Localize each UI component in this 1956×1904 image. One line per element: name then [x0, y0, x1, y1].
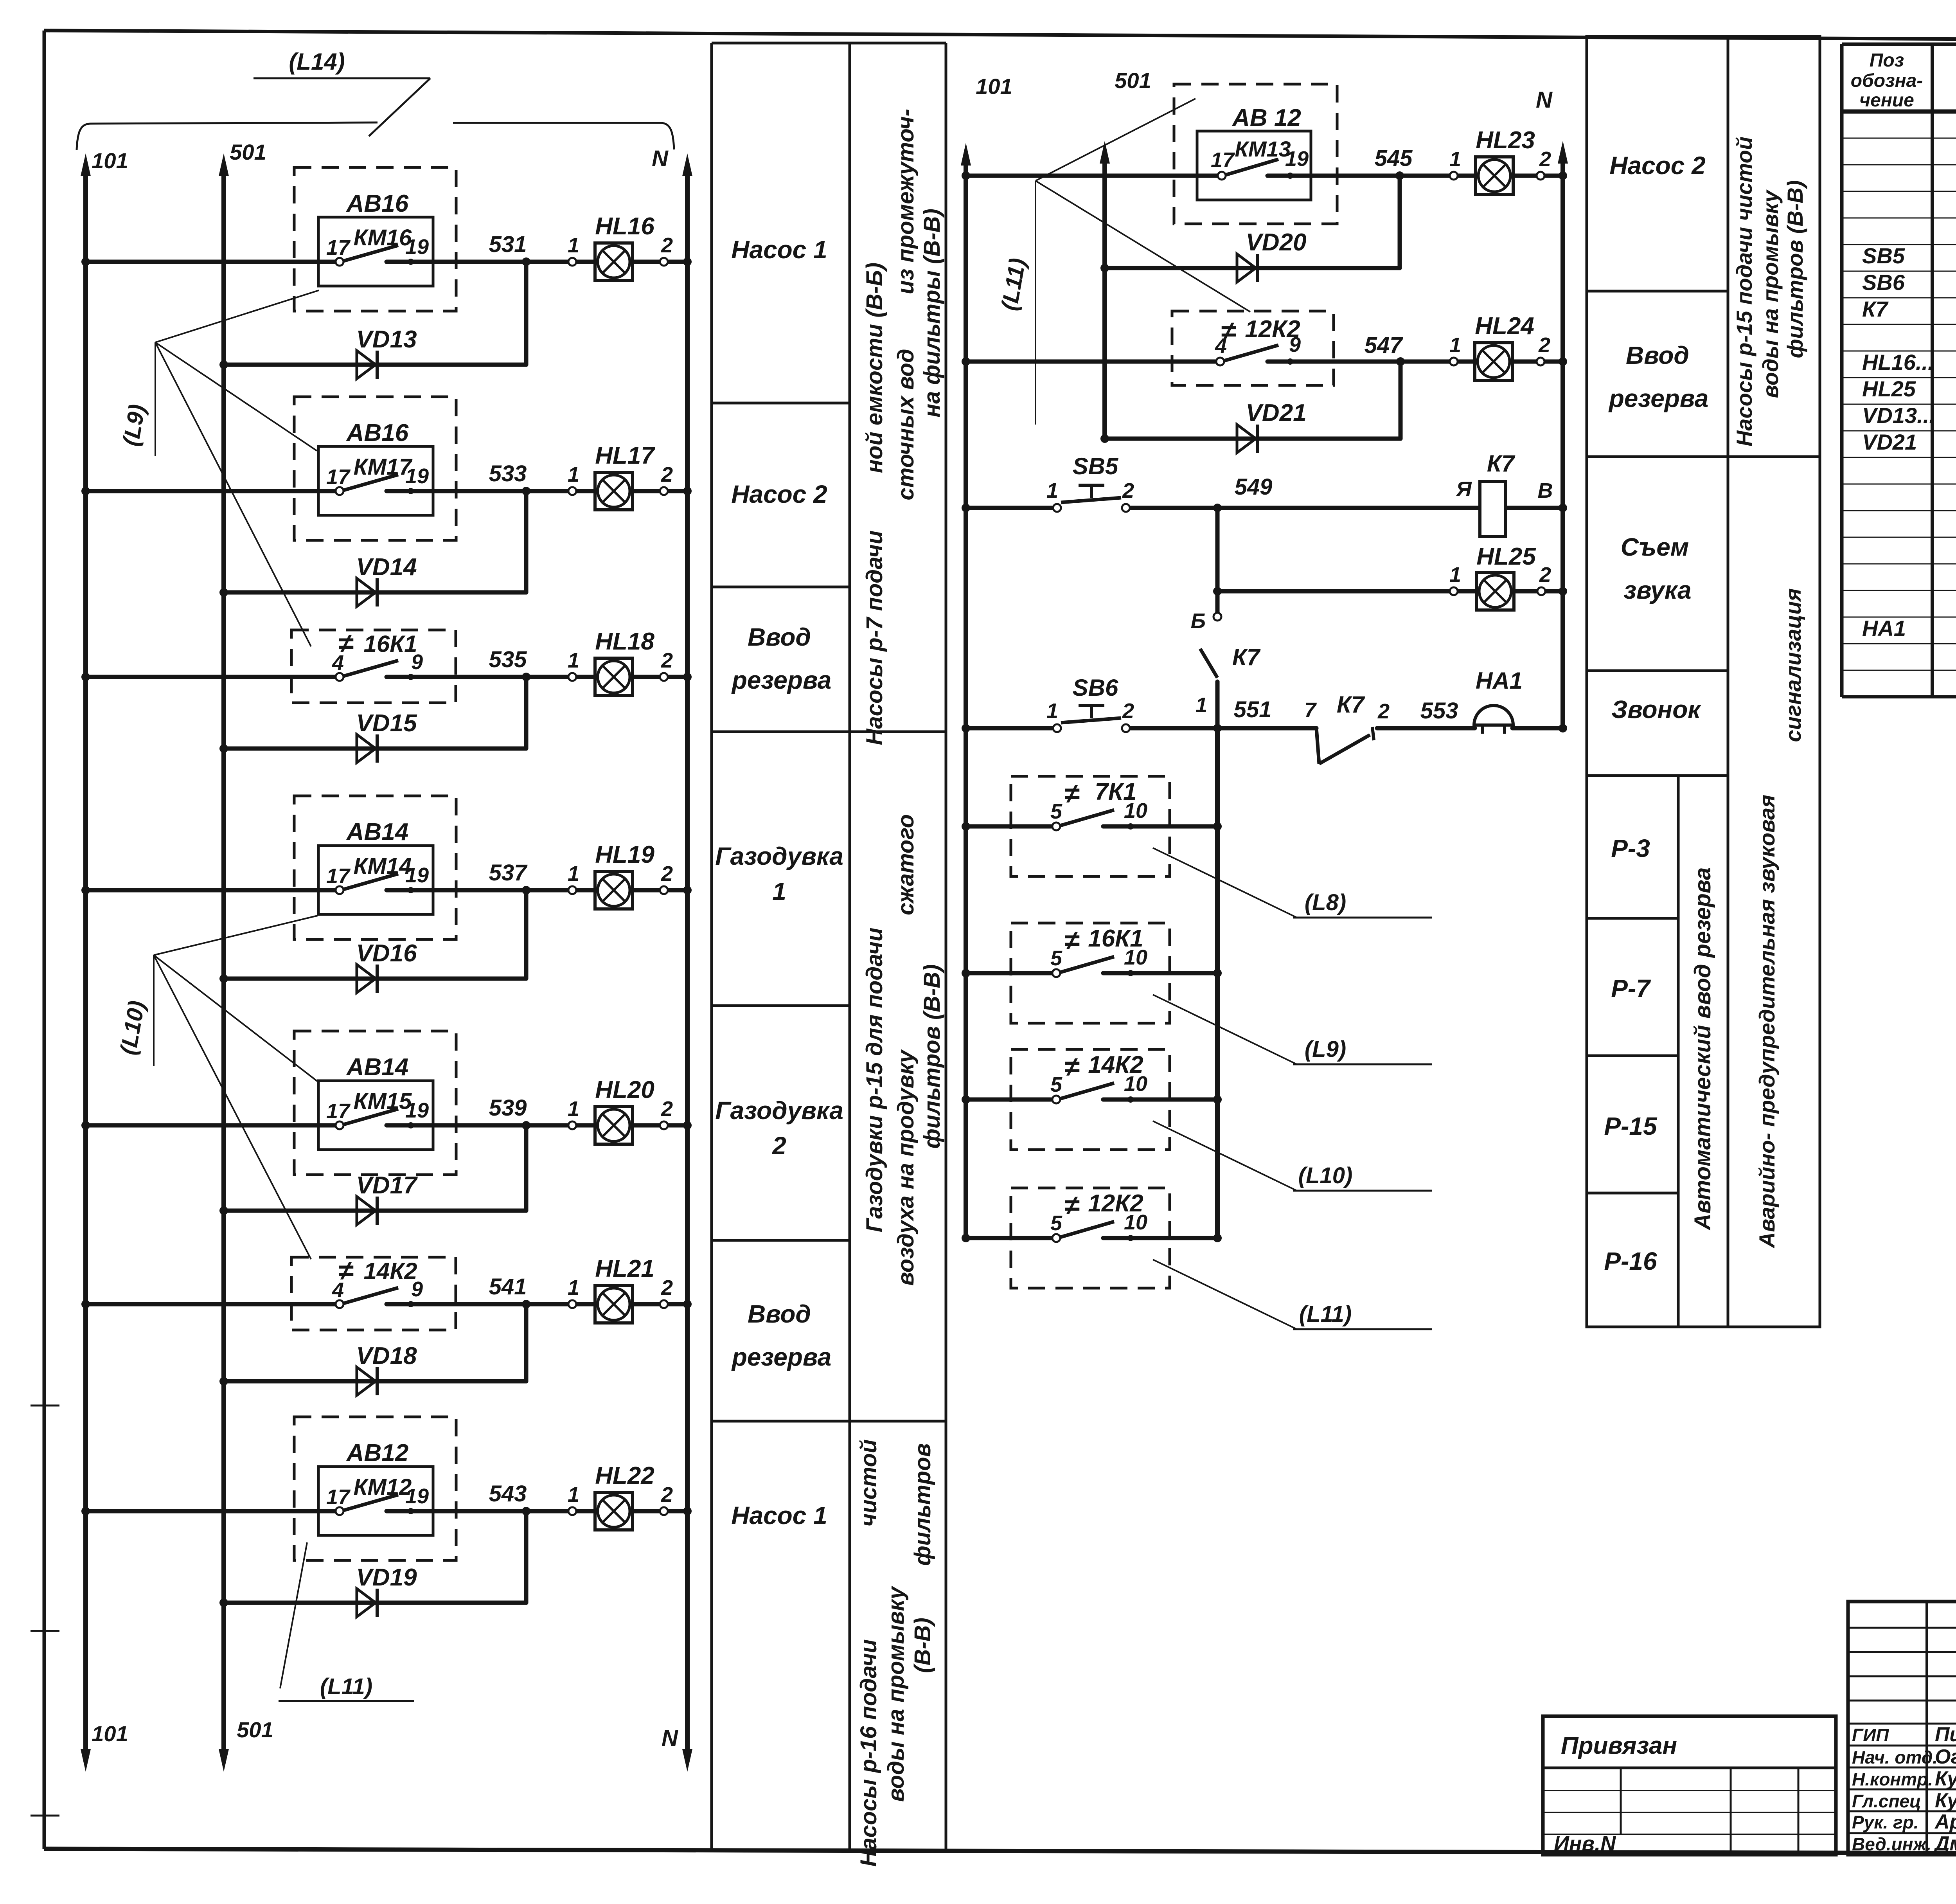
wire rung 537 from bus 101 to contact — [86, 888, 340, 893]
bus N (left ladder vertical rail) — [682, 153, 692, 1772]
junction on bus N rung 545 — [1559, 171, 1567, 180]
wire rung 12К2 to vertical bus — [1103, 1236, 1217, 1240]
junction on bus N at rung 537 — [683, 886, 692, 894]
junction node 547 — [1396, 357, 1405, 366]
svg-text:16К1: 16К1 — [364, 631, 417, 657]
svg-text:Р-15: Р-15 — [1604, 1112, 1658, 1140]
wire rung 535 from contact to bus N — [387, 675, 687, 679]
dashed enclosure contact 16К1 — [1011, 923, 1170, 1023]
terminal Б of contact K7 — [1214, 613, 1221, 621]
terminal 2 of lamp HL23 — [1537, 172, 1544, 180]
junction on bus 101 rung 545 — [962, 171, 970, 180]
svg-text:Я: Я — [1455, 477, 1472, 501]
rotated caption Аварийно-предупредительная звуковая сигнализация — [1755, 588, 1805, 1249]
dashed enclosure contact 14К2 — [291, 1257, 456, 1330]
wire rung 14К2 from bus 101 — [966, 1098, 1056, 1102]
junction on bus 501 at VD13 — [219, 360, 228, 369]
svg-text:541: 541 — [489, 1274, 527, 1299]
wire diode row VD21 from bus 501 — [1105, 437, 1400, 441]
parts row HL16 Табло световое ТСМ-III-УЗ-01 — [1862, 349, 1956, 375]
svg-text:сточных вод: сточных вод — [893, 349, 919, 500]
svg-text:VD19: VD19 — [356, 1564, 417, 1591]
svg-text:SB5: SB5 — [1073, 453, 1119, 479]
rotated caption: Насосы р-16 подачи чистой воды на промывку фильтров (В-В) — [856, 1439, 935, 1866]
parts row НА1 Звонок электрический МЗ-1 — [1862, 615, 1956, 641]
junction on bus 501 at VD17 — [219, 1206, 228, 1215]
svg-text:резерва: резерва — [731, 666, 832, 694]
svg-text:2: 2 — [1122, 699, 1134, 723]
svg-text:Р-16: Р-16 — [1604, 1247, 1657, 1275]
svg-text:Арнаутова: Арнаутова — [1934, 1810, 1956, 1833]
svg-text:2: 2 — [772, 1132, 786, 1160]
parts row VD13 Диод Д226 — [1862, 403, 1956, 428]
svg-text:19: 19 — [405, 464, 429, 488]
cable pointer (L11) upper — [996, 99, 1250, 425]
svg-text:2: 2 — [1539, 563, 1551, 587]
junction bus101 rung 12К2 — [962, 1234, 970, 1242]
svg-text:2: 2 — [661, 463, 673, 486]
terminal 1 of lamp HL24 — [1450, 358, 1458, 365]
svg-text:≠: ≠ — [1064, 925, 1080, 956]
svg-text:Поз: Поз — [1870, 50, 1904, 71]
svg-text:Пивторак: Пивторак — [1935, 1723, 1956, 1746]
junction on bus 501 at VD14 — [219, 588, 228, 597]
svg-text:501: 501 — [237, 1717, 273, 1742]
svg-text:Насос 1: Насос 1 — [731, 1501, 827, 1530]
svg-text:2: 2 — [661, 1276, 673, 1299]
bell HA1 — [1474, 705, 1513, 734]
junction on vertical bus at HL25 rung — [1213, 587, 1222, 596]
svg-text:5: 5 — [1050, 1211, 1062, 1235]
svg-text:К7: К7 — [1487, 450, 1516, 477]
svg-text:VD21: VD21 — [1246, 400, 1306, 427]
svg-text:VD20: VD20 — [1246, 229, 1306, 256]
dashed enclosure contact 12K2 (upper) — [1172, 311, 1334, 385]
wire rung 551 from bus 101 to button SB6 — [966, 726, 1057, 731]
junction vertical bus rung 551 — [1213, 724, 1222, 732]
svg-text:10: 10 — [1124, 1211, 1147, 1234]
junction node 549 (to bus down) — [1213, 504, 1222, 512]
wire rung 7К1 from bus 101 — [966, 824, 1056, 829]
diode VD18 — [357, 1367, 377, 1395]
junction on bus N at HL25 rung — [1559, 587, 1567, 596]
lamp HL22 — [595, 1492, 633, 1530]
svg-text:воздуха на продувку: воздуха на продувку — [893, 1049, 919, 1285]
svg-text:1: 1 — [568, 649, 579, 672]
junction node 535 (branch to diode) — [522, 673, 530, 681]
svg-text:НА1: НА1 — [1476, 668, 1523, 694]
svg-text:HL22: HL22 — [595, 1462, 654, 1489]
svg-text:(L11): (L11) — [996, 256, 1030, 313]
terminal 1 of lamp HL18 — [568, 673, 576, 681]
diode VD17 — [357, 1197, 377, 1225]
svg-text:Автоматический ввод резерв: Автоматический ввод резерва — [1690, 867, 1715, 1231]
svg-text:(В-В): (В-В) — [910, 1618, 935, 1673]
svg-text:14К2: 14К2 — [364, 1258, 417, 1284]
junction on bus N at rung 541 — [683, 1300, 692, 1308]
junction on bus 101 rung 549 — [962, 504, 970, 512]
svg-text:Насос 2: Насос 2 — [731, 480, 827, 508]
wire rung 549 from coil K7 to bus N — [1506, 506, 1563, 510]
wire branch from node 537 down to diode VD16 — [524, 890, 529, 979]
wire diode row VD15 from bus 501 — [224, 747, 526, 751]
contact K7 (nc, on bell rung) — [1316, 727, 1374, 764]
svg-text:4: 4 — [332, 1278, 344, 1302]
wire rung 539 from bus 101 to contact — [86, 1123, 340, 1128]
svg-text:звука: звука — [1623, 576, 1691, 604]
contact K7 (no, vertical) blade — [1200, 649, 1217, 678]
wire diode row VD19 from bus 501 — [224, 1601, 526, 1605]
legend row Газодувка 2 — [715, 1096, 843, 1160]
svg-text:АВ14: АВ14 — [346, 1054, 409, 1081]
svg-text:1: 1 — [1046, 479, 1058, 502]
contact 7К1 blade and terminals — [1052, 810, 1134, 830]
dashed enclosure АВ12 (middle) — [1174, 84, 1337, 224]
lamp HL24 — [1475, 343, 1512, 380]
svg-text:HL21: HL21 — [595, 1255, 654, 1282]
inner box of contactor КМ17 — [318, 446, 433, 515]
svg-text:Насос 1: Насос 1 — [731, 236, 827, 264]
svg-text:17: 17 — [1211, 148, 1235, 172]
svg-text:19: 19 — [405, 235, 429, 259]
legend row Ввод резерва (top) — [731, 623, 832, 694]
wire rung 541 from bus 101 to contact — [86, 1302, 340, 1307]
svg-text:≠: ≠ — [1064, 1190, 1080, 1220]
junction on bus 501 at VD18 — [219, 1377, 228, 1386]
junction on bus N at rung 531 — [683, 257, 692, 266]
junction on bus 101 at rung 535 — [81, 673, 90, 681]
svg-text:HL16: HL16 — [595, 213, 654, 240]
diode VD15 — [357, 734, 377, 763]
wire rung 549 from bus 101 to button SB5 — [966, 506, 1057, 510]
svg-text:545: 545 — [1375, 146, 1413, 171]
svg-text:Аварийно- предупредительная з: Аварийно- предупредительная звуковая — [1755, 795, 1779, 1249]
junction bus101 rung 14К2 — [962, 1095, 970, 1104]
junction node 543 (branch to diode) — [522, 1507, 530, 1515]
svg-text:19: 19 — [1285, 147, 1309, 171]
legend row Ввод резерва (middle) — [1608, 341, 1709, 412]
svg-text:535: 535 — [489, 647, 527, 672]
svg-text:1: 1 — [568, 1097, 579, 1121]
wire rung 535 from bus 101 to contact — [86, 675, 340, 679]
svg-text:101: 101 — [976, 74, 1012, 99]
svg-text:фильтров (В-В): фильтров (В-В) — [1783, 180, 1807, 358]
svg-text:2: 2 — [661, 862, 673, 885]
svg-text:1: 1 — [1196, 693, 1207, 717]
cable pointer (L10) — [1153, 1121, 1432, 1191]
svg-text:КМ14: КМ14 — [354, 853, 412, 879]
svg-text:2: 2 — [1377, 700, 1390, 723]
contact 12K2 blade and terminals — [1216, 345, 1293, 365]
junction on bus N at rung 535 — [683, 673, 692, 681]
svg-text:HL25: HL25 — [1476, 543, 1536, 570]
svg-text:обозна-: обозна- — [1851, 70, 1923, 91]
wire rung HL25 from bus to lamp and bus N — [1217, 589, 1563, 594]
svg-text:В: В — [1538, 479, 1553, 502]
wire rung 531 from bus 101 to contact — [86, 260, 340, 264]
svg-text:17: 17 — [326, 864, 351, 888]
svg-text:Нач. отд.: Нач. отд. — [1852, 1747, 1938, 1767]
svg-text:Р-3: Р-3 — [1611, 834, 1650, 862]
bus 101 (left ladder vertical rail) — [81, 153, 91, 1772]
relay coil K7 — [1480, 482, 1506, 536]
junction on bus 501 at VD20 — [1100, 264, 1109, 272]
junction on bus N at rung 543 — [683, 1507, 692, 1515]
junction on bus 101 at rung 543 — [81, 1507, 90, 1515]
svg-text:резерва: резерва — [731, 1343, 832, 1371]
svg-text:≠: ≠ — [1064, 778, 1080, 809]
wire rung 7К1 to vertical bus — [1103, 824, 1217, 829]
svg-text:Газодувка: Газодувка — [715, 1096, 843, 1125]
wire branch from node 541 down to diode VD18 — [524, 1304, 529, 1381]
svg-text:SB6: SB6 — [1862, 270, 1905, 295]
contact 16К1 blade and terminals — [336, 660, 414, 681]
junction on bus 101 at rung 541 — [81, 1300, 90, 1308]
parts row HL25 ~220В — [1862, 376, 1956, 401]
svg-text:1: 1 — [568, 1276, 579, 1299]
wire rung 531 from contact to bus N — [387, 260, 687, 264]
svg-text:чение: чение — [1859, 90, 1914, 111]
wire branch from node 543 down to diode VD19 — [524, 1511, 529, 1603]
svg-text:547: 547 — [1365, 333, 1404, 358]
svg-text:Дмитриева: Дмитриева — [1933, 1832, 1956, 1855]
wire bus from node 549 down to contact K7 — [1215, 508, 1220, 613]
contact КМ16 blade and terminals — [336, 245, 414, 266]
junction on bus 501 at VD21 — [1100, 434, 1109, 443]
dashed enclosure АВ14 — [294, 1031, 456, 1175]
svg-text:Инв.N: Инв.N — [1554, 1832, 1616, 1855]
wire rung 547 from bus 101 to contact 12K2 — [966, 360, 1220, 364]
svg-text:VD18: VD18 — [356, 1343, 417, 1370]
svg-text:(L14): (L14) — [289, 49, 345, 75]
terminal 2 of lamp HL19 — [660, 886, 668, 894]
svg-text:(L9): (L9) — [1305, 1037, 1346, 1062]
push button SB6 — [1053, 705, 1130, 732]
svg-text:HL16...: HL16... — [1862, 350, 1934, 374]
svg-text:АВ 12: АВ 12 — [1231, 104, 1301, 131]
cable marker (L14) — [253, 49, 430, 136]
wire branch from node 531 down to diode VD13 — [524, 262, 529, 365]
svg-text:HL19: HL19 — [595, 841, 654, 868]
svg-text:5: 5 — [1050, 947, 1062, 970]
wire rung 541 from contact to bus N — [387, 1302, 687, 1307]
svg-text:АВ16: АВ16 — [346, 190, 409, 217]
diode VD16 — [357, 965, 377, 993]
svg-text:Кузнецов: Кузнецов — [1935, 1789, 1956, 1812]
legend row Съем звука — [1621, 533, 1692, 604]
svg-text:Насосы р-15 подачи чистой: Насосы р-15 подачи чистой — [1732, 137, 1756, 446]
terminal 2 of lamp HL18 — [660, 673, 668, 681]
svg-text:АВ14: АВ14 — [346, 819, 409, 846]
junction on bus N at rung 533 — [683, 487, 692, 495]
svg-text:Р-7: Р-7 — [1611, 974, 1651, 1002]
rotated caption: Газодувки р-15 для подачи сжатого воздуха на продувку фильтров (В-В) — [862, 814, 945, 1286]
svg-text:9: 9 — [411, 650, 423, 674]
svg-text:(L9): (L9) — [118, 403, 150, 448]
terminal 2 of lamp HL24 — [1537, 358, 1544, 365]
diode VD21 — [1237, 425, 1257, 453]
inner box of contactor KM13 — [1197, 131, 1311, 200]
cable pointer (L11) bottom — [279, 1542, 414, 1701]
title block attachment table (Привязан / Инв.N) — [1543, 1716, 1836, 1855]
dashed enclosure contact 16К1 — [291, 630, 456, 703]
junction node 539 (branch to diode) — [522, 1121, 530, 1130]
svg-text:КМ13: КМ13 — [1235, 137, 1291, 161]
svg-text:HL17: HL17 — [595, 442, 655, 469]
inner box of contactor КМ14 — [318, 846, 433, 914]
legend row Ввод резерва (bottom) — [731, 1300, 832, 1371]
junction on bus 101 at rung 533 — [81, 487, 90, 495]
contact КМ14 blade and terminals — [336, 874, 414, 894]
svg-text:VD15: VD15 — [356, 710, 417, 737]
terminal 1 of lamp HL20 — [568, 1121, 576, 1129]
push button SB5 — [1053, 485, 1130, 512]
svg-text:VD14: VD14 — [356, 554, 417, 581]
cable pointer fan (L10) — [115, 916, 318, 1259]
svg-text:SB6: SB6 — [1073, 675, 1118, 701]
dashed enclosure АВ16 — [294, 167, 456, 311]
lamp HL16 — [595, 243, 633, 281]
svg-text:К7: К7 — [1862, 297, 1889, 321]
svg-text:резерва: резерва — [1608, 384, 1709, 412]
wire branch from node 539 down to diode VD17 — [524, 1125, 529, 1211]
svg-text:539: 539 — [489, 1095, 527, 1121]
svg-text:1: 1 — [568, 463, 579, 486]
svg-text:Гл.спец: Гл.спец — [1852, 1791, 1921, 1811]
wire rung 543 from contact to bus N — [387, 1509, 687, 1513]
junction node 545 — [1395, 171, 1404, 180]
svg-text:Звонок: Звонок — [1611, 695, 1702, 723]
dashed enclosure АВ16 — [294, 397, 456, 540]
svg-text:Насос 2: Насос 2 — [1609, 151, 1705, 180]
not-equal mark and label 16К1 — [1064, 925, 1143, 956]
bus 501 (middle ladder rail) — [1100, 141, 1110, 439]
terminal 2 of lamp HL25 — [1537, 587, 1545, 595]
svg-text:ГИП: ГИП — [1852, 1725, 1889, 1745]
svg-text:HL25: HL25 — [1862, 376, 1916, 401]
svg-text:Насосы р-16 подачи: Насосы р-16 подачи — [856, 1639, 881, 1866]
svg-text:2: 2 — [661, 649, 673, 672]
svg-text:(L11): (L11) — [320, 1674, 372, 1699]
wire diode row VD13 from bus 501 — [224, 363, 526, 367]
junction on bus N rung 553 — [1559, 724, 1567, 732]
svg-text:(L11): (L11) — [1299, 1301, 1352, 1327]
inner box of contactor КМ15 — [318, 1081, 433, 1150]
svg-text:Газодувки р-15 для подачи: Газодувки р-15 для подачи — [862, 927, 887, 1232]
dashed enclosure contact 12К2 — [1011, 1188, 1170, 1288]
parts table header — [1851, 50, 1956, 111]
wire rung 545 from contact KM13 to bus N — [1267, 174, 1563, 178]
lamp HL25 — [1476, 572, 1514, 610]
inner box of contactor КМ12 — [318, 1467, 433, 1535]
diode VD20 — [1237, 254, 1257, 282]
svg-text:1: 1 — [772, 877, 786, 905]
svg-text:Газодувка: Газодувка — [715, 842, 843, 870]
cable group bracket over left ladder — [77, 122, 674, 150]
svg-text:5: 5 — [1050, 800, 1062, 823]
contact КМ15 blade and terminals — [336, 1109, 414, 1129]
cable pointer (L9) — [1153, 995, 1432, 1064]
parts row SB5 Кнопка управления КЕ011УЗ — [1862, 243, 1956, 268]
svg-text:7: 7 — [1304, 698, 1317, 722]
contact 12К2 blade and terminals — [1052, 1222, 1134, 1242]
svg-text:2: 2 — [661, 234, 673, 257]
wire rung 547 from contact 12K2 to bus N — [1267, 360, 1563, 364]
svg-text:HL24: HL24 — [1475, 313, 1534, 340]
cable pointer fan (L9) — [118, 290, 319, 646]
wire diode row VD18 from bus 501 — [224, 1379, 526, 1384]
svg-text:1: 1 — [568, 234, 579, 257]
svg-text:на фильтры (В-В): на фильтры (В-В) — [919, 209, 945, 418]
svg-text:2: 2 — [661, 1097, 673, 1121]
contact KM13 blade and terminals — [1218, 159, 1293, 180]
not-equal mark and label 14К2 — [338, 1255, 417, 1286]
svg-text:VD16: VD16 — [356, 940, 417, 967]
lamp HL23 — [1476, 157, 1513, 194]
terminal 1 of lamp HL21 — [568, 1300, 576, 1308]
svg-text:1: 1 — [568, 1483, 579, 1506]
dashed enclosure contact 14К2 — [1011, 1049, 1170, 1150]
contact 14К2 blade and terminals — [1052, 1083, 1134, 1103]
wire rung 553 from contact K7 to bell HA1 — [1377, 726, 1475, 731]
contact 14К2 blade and terminals — [336, 1288, 414, 1308]
wire from contact K7 down to rung 551 — [1215, 682, 1220, 728]
wire diode row VD20 from bus 501 — [1105, 266, 1400, 270]
svg-text:101: 101 — [92, 148, 128, 173]
junction on bus 101 rung 551 — [962, 724, 970, 732]
svg-text:10: 10 — [1124, 799, 1147, 822]
svg-text:ной емкости (В-Б): ной емкости (В-Б) — [862, 263, 887, 473]
svg-text:17: 17 — [326, 1485, 351, 1509]
junction vertical bus rung 7К1 — [1213, 822, 1222, 831]
not-equal mark and label 14К2 — [1064, 1051, 1143, 1082]
wire rung 16К1 to vertical bus — [1103, 971, 1217, 975]
svg-text:Ввод: Ввод — [1626, 341, 1689, 369]
terminal 1 of lamp HL17 — [568, 487, 576, 495]
not-equal mark and label 7К1 — [1064, 778, 1137, 809]
junction vertical bus rung 14К2 — [1213, 1095, 1222, 1104]
svg-text:19: 19 — [405, 1485, 429, 1508]
svg-text:4: 4 — [1215, 334, 1227, 358]
junction bus101 rung 16К1 — [962, 969, 970, 977]
cable pointer (L8) — [1153, 848, 1432, 918]
svg-text:Н.контр.: Н.контр. — [1852, 1769, 1933, 1789]
svg-text:4: 4 — [332, 651, 344, 675]
svg-text:531: 531 — [489, 232, 527, 257]
junction vertical bus rung 16К1 — [1213, 969, 1222, 977]
svg-text:HL20: HL20 — [595, 1076, 654, 1103]
junction node 531 (branch to diode) — [522, 257, 530, 266]
svg-text:543: 543 — [489, 1481, 527, 1506]
junction node 533 (branch to diode) — [522, 487, 530, 495]
wire branch from node 533 down to diode VD14 — [524, 491, 529, 592]
svg-text:2: 2 — [661, 1483, 673, 1506]
wire rung 549 from SB5 to relay coil K7 — [1128, 506, 1480, 510]
left legend column grid — [712, 43, 946, 1849]
terminal 2 of lamp HL17 — [660, 487, 668, 495]
wire rung 551 from SB6 to contact K7 — [1128, 726, 1316, 731]
svg-text:воды на промывку: воды на промывку — [883, 1585, 909, 1802]
wire rung 533 from contact to bus N — [387, 489, 687, 493]
not-equal mark and label 16К1 — [338, 628, 417, 659]
svg-text:N: N — [1536, 87, 1553, 113]
lamp HL20 — [595, 1107, 633, 1144]
not-equal mark and label 12К2 — [1221, 316, 1300, 346]
svg-text:из промежуточ-: из промежуточ- — [893, 109, 919, 294]
svg-text:2: 2 — [1539, 148, 1551, 171]
dashed enclosure contact 7К1 — [1011, 776, 1170, 876]
middle legend column grid — [1587, 36, 1820, 1327]
